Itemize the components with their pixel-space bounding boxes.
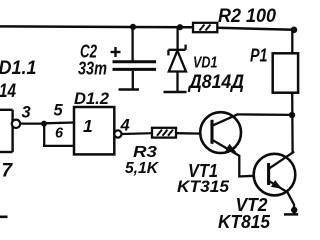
resistor R3 — [152, 128, 176, 138]
polarity plus sign of C2 — [111, 47, 121, 57]
capacitor C2 — [113, 62, 157, 70]
wire VD1 bottom terminal bar — [164, 91, 187, 94]
wire VT2 emitter terminal bar — [284, 213, 298, 216]
svg-text:VD1: VD1 — [193, 55, 218, 72]
zener diode VD1 — [168, 45, 186, 72]
logic gate D1.2 box — [74, 107, 114, 154]
wire D1.2 output to R3 — [122, 132, 153, 135]
resistor R2 — [193, 23, 217, 32]
wire VD1 top lead — [176, 28, 178, 51]
wire to pin 5 — [44, 121, 75, 124]
wire P1 top lead — [291, 30, 293, 54]
svg-text:D1.1: D1.1 — [0, 58, 37, 79]
node junction rail to P1 — [291, 27, 298, 34]
wire C2 bottom terminal bar — [119, 88, 140, 91]
svg-text:4: 4 — [120, 117, 130, 135]
wire junction drop to pin 6 — [43, 124, 45, 146]
svg-text:R3: R3 — [133, 144, 157, 161]
wire VD1 bottom lead — [176, 72, 178, 92]
relay P1 coil box — [273, 53, 298, 92]
wire rail right segment from R2 to P1 branch — [217, 28, 294, 30]
svg-text:KT315: KT315 — [177, 177, 230, 196]
svg-text:1: 1 — [83, 116, 93, 136]
capacitor C2 top lead wire — [131, 27, 133, 62]
node junction to gate inputs — [41, 121, 47, 127]
node junction VD1/R2 to rail — [177, 24, 183, 30]
svg-text:33m: 33m — [78, 59, 107, 79]
wire VT1 emitter down and right to VT2 base — [238, 155, 254, 177]
node junction VT2 emitter — [291, 207, 297, 213]
inversion bubble of D1.1 — [12, 120, 20, 128]
svg-text:6: 6 — [55, 126, 64, 142]
transistor VT2 — [254, 152, 296, 214]
svg-text:7: 7 — [2, 161, 14, 182]
wire D1.1 output to junction — [20, 122, 44, 124]
svg-text:14: 14 — [0, 81, 16, 102]
transistor VT1 — [200, 112, 241, 156]
inversion bubble of D1.2 — [114, 130, 121, 137]
wire VT1 collector to P1 node — [237, 113, 293, 116]
wire R3 to VT1 base — [176, 132, 201, 135]
node junction C2 to rail — [130, 24, 136, 30]
svg-text:P1: P1 — [250, 46, 268, 66]
svg-text:Д814Д: Д814Д — [187, 72, 244, 93]
wire to pin 6 — [43, 145, 75, 147]
svg-text:5,1K: 5,1K — [125, 160, 160, 177]
svg-text:3: 3 — [22, 104, 31, 122]
wire P1 bottom lead down to VT2 collector — [291, 93, 294, 153]
svg-text:KT815: KT815 — [218, 212, 271, 232]
svg-text:5: 5 — [54, 102, 64, 120]
logic gate D1.1 (cut at left edge) — [0, 110, 13, 152]
wire top supply rail left segment — [0, 25, 193, 28]
wire stub bottom left — [0, 216, 8, 219]
wire C2 bottom lead — [132, 71, 134, 89]
svg-text:R2 100: R2 100 — [218, 6, 276, 27]
svg-text:D1.2: D1.2 — [74, 90, 109, 108]
node junction VT1 collector to P1 wire — [289, 112, 295, 118]
